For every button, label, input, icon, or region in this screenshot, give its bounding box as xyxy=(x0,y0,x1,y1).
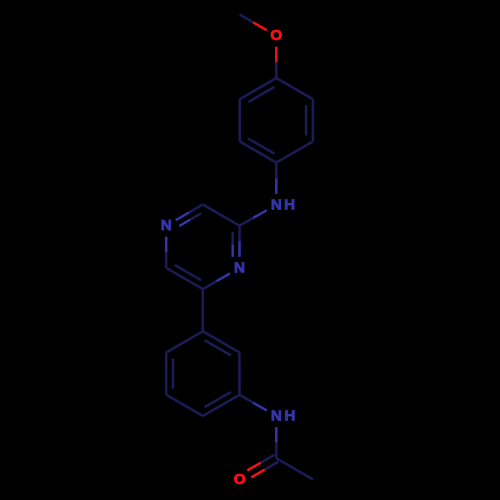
ring3 P1=UR3 inner xyxy=(205,340,231,355)
pyrazine C5=C6b main xyxy=(166,268,203,289)
bond NH1-C2 half B xyxy=(240,218,254,226)
pyrazine N4-C5 half A xyxy=(216,273,230,281)
svg-text:H: H xyxy=(284,408,295,425)
pyrazine C2=N4 main half A xyxy=(238,226,241,242)
svg-text:O: O xyxy=(234,471,246,488)
bond C4-NH1 half B xyxy=(275,178,278,194)
pyrazine C2=N4 main half B xyxy=(238,241,241,257)
bond NH2-Cco half B xyxy=(275,443,278,459)
ring3 UR3-LR3 xyxy=(238,353,241,395)
bond CH3-O1 half A xyxy=(240,15,254,23)
pyrazine C6b-N1 half B xyxy=(165,237,168,253)
bond CH3-O1 half B xyxy=(253,22,267,30)
ring3 B3-LL3 xyxy=(166,395,203,416)
pyrazine N1=C6 main half B xyxy=(189,205,203,213)
bond C5-phenyl xyxy=(202,289,205,331)
ring3 P1=UR3 main xyxy=(203,331,240,352)
pyrazine C2=N4 inner half B xyxy=(231,244,234,257)
ring1 UL1=T1 main xyxy=(240,78,277,99)
svg-text:H: H xyxy=(284,196,295,213)
ring3 LL3=UL3 inner xyxy=(172,359,175,389)
svg-text:N: N xyxy=(271,408,282,425)
bond O1-C1 half A xyxy=(275,47,278,63)
ring1 T1-UR1 xyxy=(276,78,313,99)
ring3 LR3=B3 main xyxy=(203,395,240,416)
pyrazine C2=N4 inner half A xyxy=(231,232,234,245)
ring1 UL1=T1 inner xyxy=(248,87,274,102)
ring1 UR1=LR1 main xyxy=(312,99,315,141)
ring3 UL3-P1 xyxy=(166,331,203,352)
ring1 B1=LL1 inner xyxy=(248,139,274,154)
bond O1-C1 half B xyxy=(275,62,278,78)
ring3 LR3=B3 inner xyxy=(205,392,231,407)
bond NH2-Cco half A xyxy=(275,427,278,443)
svg-text:N: N xyxy=(161,217,172,234)
pyrazine N4-C5 half B xyxy=(203,281,217,289)
bond C-NH2 half A xyxy=(239,395,253,403)
ring1 LR1-B1 xyxy=(276,141,313,162)
bond C4-NH1 half A xyxy=(275,163,278,179)
ring1 B1=LL1 main xyxy=(240,141,277,162)
bond Cco-CH3 xyxy=(276,458,313,479)
ring1 LL1-UL1 xyxy=(238,99,241,141)
svg-text:N: N xyxy=(234,259,245,276)
pyrazine N1=C6 main half A xyxy=(176,212,190,220)
C=O line b C half xyxy=(265,462,279,470)
pyrazine C6-C2 xyxy=(203,205,240,226)
pyrazine N1=C6 inner half B xyxy=(190,213,201,219)
bond C-NH2 half B xyxy=(253,403,267,411)
C=O line b O half xyxy=(251,470,265,478)
svg-text:O: O xyxy=(270,27,282,44)
C=O line a C half xyxy=(261,455,275,463)
bond NH1-C2 half A xyxy=(253,210,267,218)
pyrazine C6b-N1 half A xyxy=(165,252,168,268)
ring1 UR1=LR1 inner xyxy=(305,105,308,135)
pyrazine C5=C6b inner xyxy=(175,265,201,280)
pyrazine N1=C6 inner half A xyxy=(179,220,190,226)
ring3 LL3=UL3 main xyxy=(165,353,168,395)
C=O line a O half xyxy=(247,463,261,471)
svg-text:N: N xyxy=(271,196,282,213)
